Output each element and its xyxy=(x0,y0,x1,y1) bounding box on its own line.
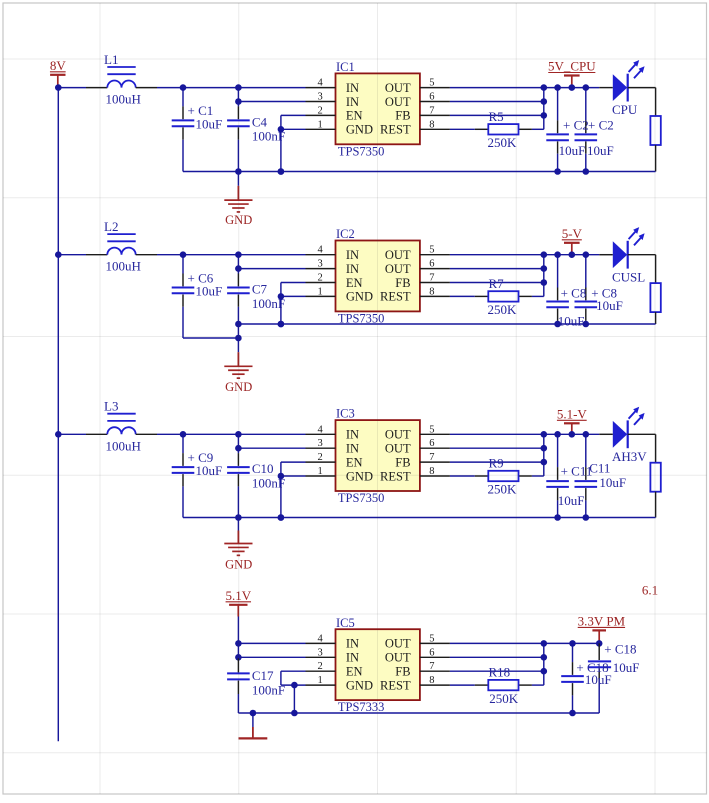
capacitor out A xyxy=(546,88,569,172)
wire: input net xyxy=(58,87,305,89)
node: mid junctions xyxy=(541,654,548,675)
wire: pin8 to R18 xyxy=(450,684,475,686)
wire: pin3 to cap xyxy=(238,268,305,270)
wire: pin6 pin7 mid xyxy=(450,643,544,685)
wire: pin8 to resistor xyxy=(450,295,475,297)
svg-text:OUT: OUT xyxy=(385,95,411,109)
svg-text:1: 1 xyxy=(318,286,323,297)
wire: 3.3V OUT net xyxy=(450,642,599,644)
svg-text:5: 5 xyxy=(429,245,434,256)
svg-text:7: 7 xyxy=(429,661,434,672)
wire: pin8 to resistor xyxy=(450,128,475,130)
R5 labels xyxy=(488,109,518,150)
svg-text:10uF: 10uF xyxy=(599,475,626,490)
wire: ground rail xyxy=(183,171,656,173)
op-amp IC5 (regulator) xyxy=(336,629,420,700)
IC3 part TPS7350 xyxy=(338,491,385,505)
svg-text:6: 6 xyxy=(429,647,434,658)
resistor R18 xyxy=(475,680,544,690)
svg-text:OUT: OUT xyxy=(385,262,411,276)
node: input junctions xyxy=(180,431,242,438)
capacitor C6 xyxy=(172,255,195,338)
node: rail junctions xyxy=(250,710,576,717)
IC2 reference xyxy=(336,227,355,241)
svg-text:5V_CPU: 5V_CPU xyxy=(548,59,596,74)
wire: EN/GND drop xyxy=(281,115,306,171)
capacitor out B xyxy=(575,434,598,517)
node: mid junctions xyxy=(541,265,548,286)
op-amp IC2 (regulator) xyxy=(336,241,420,312)
svg-text:AH3V: AH3V xyxy=(612,449,647,464)
IC3 pins xyxy=(306,434,450,476)
svg-text:5.1-V: 5.1-V xyxy=(557,406,588,421)
inductor L2 xyxy=(86,219,157,255)
wire: OUT net xyxy=(450,433,599,435)
svg-text:8: 8 xyxy=(429,675,434,686)
svg-text:5-V: 5-V xyxy=(562,226,583,241)
svg-text:250K: 250K xyxy=(489,691,519,706)
svg-text:EN: EN xyxy=(346,455,363,469)
svg-text:C17: C17 xyxy=(252,668,274,683)
IC2 pins xyxy=(306,255,450,297)
svg-text:EN: EN xyxy=(346,109,363,123)
IC5 reference xyxy=(336,616,355,630)
node label 6.1 xyxy=(642,583,658,598)
node: EN drop junctions xyxy=(278,293,285,327)
wire: 8V vertical rail xyxy=(57,88,59,742)
svg-text:EN: EN xyxy=(346,665,363,679)
svg-text:100uH: 100uH xyxy=(106,438,141,453)
svg-text:L2: L2 xyxy=(104,219,118,234)
svg-text:CPU: CPU xyxy=(612,102,638,117)
power 5V_CPU xyxy=(548,59,596,88)
svg-text:IC2: IC2 xyxy=(336,227,355,241)
capacitor C7 xyxy=(227,255,250,324)
node: pin3 junction xyxy=(235,265,242,272)
capacitor C18 a xyxy=(561,643,584,713)
capacitor C10 xyxy=(227,434,250,517)
node: rail junctions xyxy=(235,514,589,521)
svg-text:IC5: IC5 xyxy=(336,616,355,630)
wire: pin8 to resistor xyxy=(450,475,475,477)
ground GND xyxy=(224,518,252,572)
svg-text:OUT: OUT xyxy=(385,651,411,665)
wire: OUT net xyxy=(450,254,599,256)
wire: input net xyxy=(58,254,305,256)
svg-text:3: 3 xyxy=(318,647,323,658)
svg-text:7: 7 xyxy=(429,105,434,116)
svg-text:GND: GND xyxy=(346,290,373,304)
IC2 pin numbers xyxy=(318,245,435,298)
load resistor xyxy=(650,434,660,491)
wire: input net xyxy=(58,433,305,435)
svg-text:250K: 250K xyxy=(488,135,518,150)
C17 labels xyxy=(252,668,285,697)
svg-text:100uH: 100uH xyxy=(106,259,141,274)
svg-text:10uF: 10uF xyxy=(196,284,223,299)
svg-text:5: 5 xyxy=(429,633,434,644)
C18 labels xyxy=(576,641,639,687)
IC5 pin numbers xyxy=(318,633,435,686)
svg-text:5: 5 xyxy=(429,424,434,435)
IC3 pin numbers xyxy=(318,424,435,477)
capacitor C17 xyxy=(227,658,250,713)
svg-text:10uF: 10uF xyxy=(596,298,623,313)
C6 labels xyxy=(188,270,223,298)
capacitor out B xyxy=(575,255,598,324)
svg-text:REST: REST xyxy=(380,678,411,692)
op-amp IC3 (regulator) xyxy=(336,420,420,491)
C10 labels xyxy=(252,461,285,490)
svg-text:C4: C4 xyxy=(252,114,268,129)
node: pin3 junction xyxy=(235,98,242,105)
IC1 reference xyxy=(336,60,355,74)
svg-text:FB: FB xyxy=(395,109,410,123)
wire: 5.1V vertical xyxy=(238,617,305,658)
wire: pin6 pin7 xyxy=(450,255,544,297)
node: mid junctions xyxy=(541,98,548,119)
svg-text:+ C2: + C2 xyxy=(563,117,589,132)
svg-text:GND: GND xyxy=(346,123,373,137)
svg-text:6: 6 xyxy=(429,92,434,103)
node: pin3 junction xyxy=(235,445,242,452)
wire: right vertical xyxy=(655,312,657,324)
node: input junctions xyxy=(180,251,242,258)
IC1 pin numbers xyxy=(318,78,435,131)
ground GND xyxy=(224,172,252,228)
node: EN drop junctions xyxy=(278,126,285,175)
capacitor C1 xyxy=(172,88,195,172)
R18 labels xyxy=(489,665,519,706)
svg-text:6: 6 xyxy=(429,259,434,270)
C4 labels xyxy=(252,114,285,143)
wire: EN/GND drop xyxy=(281,283,306,325)
svg-text:C10: C10 xyxy=(252,461,274,476)
wire: ground rail xyxy=(183,324,656,338)
svg-text:FB: FB xyxy=(395,665,410,679)
node: OUT junctions xyxy=(541,251,590,258)
op-amp IC1 (regulator) xyxy=(336,73,420,144)
out cap labels xyxy=(558,286,623,329)
IC1 part TPS7350 xyxy=(338,144,385,158)
wire: OUT net xyxy=(450,87,599,89)
out cap labels xyxy=(559,117,614,158)
svg-text:OUT: OUT xyxy=(385,637,411,651)
LED AH3V xyxy=(599,407,655,464)
svg-text:+ C18: + C18 xyxy=(604,641,636,656)
svg-text:4: 4 xyxy=(318,245,324,256)
svg-text:1: 1 xyxy=(318,675,323,686)
IC1 pins xyxy=(306,88,450,130)
svg-text:+ C11: + C11 xyxy=(561,464,593,479)
load resistor xyxy=(650,88,660,145)
svg-text:8: 8 xyxy=(429,286,434,297)
svg-text:REST: REST xyxy=(380,123,411,137)
LED CPU xyxy=(599,60,655,117)
svg-text:10uF: 10uF xyxy=(613,660,640,675)
svg-text:IN: IN xyxy=(346,95,359,109)
ground bar xyxy=(239,713,268,738)
svg-text:EN: EN xyxy=(346,276,363,290)
C9 labels xyxy=(188,450,223,478)
svg-text:IN: IN xyxy=(346,248,359,262)
svg-text:OUT: OUT xyxy=(385,248,411,262)
wire: right vertical xyxy=(655,492,657,518)
svg-text:1: 1 xyxy=(318,119,323,130)
svg-text:7: 7 xyxy=(429,273,434,284)
L3 value 100uH xyxy=(106,438,141,453)
svg-text:5: 5 xyxy=(429,78,434,89)
svg-text:2: 2 xyxy=(318,273,323,284)
resistor R7 xyxy=(475,291,544,301)
wire: EN/GND drop xyxy=(281,462,306,517)
svg-text:REST: REST xyxy=(380,469,411,483)
capacitor out B xyxy=(575,88,598,172)
inductor L3 xyxy=(86,399,157,435)
svg-text:R9: R9 xyxy=(489,456,504,471)
svg-text:100nF: 100nF xyxy=(252,682,285,697)
svg-text:3: 3 xyxy=(318,438,323,449)
svg-text:10uF: 10uF xyxy=(196,463,223,478)
svg-text:IN: IN xyxy=(346,637,359,651)
svg-text:7: 7 xyxy=(429,452,434,463)
IC3 reference xyxy=(336,407,355,421)
R9 labels xyxy=(488,456,518,497)
svg-text:6: 6 xyxy=(429,438,434,449)
node: input junctions xyxy=(180,84,242,91)
node: rail junctions xyxy=(235,321,589,342)
resistor R9 xyxy=(475,471,544,481)
svg-text:+ C2: + C2 xyxy=(588,117,614,132)
svg-text:+ C8: + C8 xyxy=(561,286,587,301)
svg-text:FB: FB xyxy=(395,276,410,290)
svg-text:10uF: 10uF xyxy=(558,493,585,508)
R7 labels xyxy=(488,276,518,317)
wire: ground rail xyxy=(183,517,656,519)
power 5.1-V xyxy=(557,406,588,434)
node: 5.1V junctions xyxy=(235,640,242,660)
svg-text:IN: IN xyxy=(346,81,359,95)
svg-text:GND: GND xyxy=(346,678,373,692)
svg-text:3: 3 xyxy=(318,92,323,103)
capacitor out A xyxy=(546,434,569,517)
svg-text:REST: REST xyxy=(380,290,411,304)
svg-text:4: 4 xyxy=(318,78,324,89)
wire: pin6 pin7 xyxy=(450,88,544,130)
wire: pin3 to cap xyxy=(238,101,305,103)
wire: pin6 pin7 xyxy=(450,434,544,476)
svg-text:10uF: 10uF xyxy=(585,672,612,687)
power 5.1V xyxy=(225,588,251,617)
svg-text:OUT: OUT xyxy=(385,442,411,456)
svg-text:IC1: IC1 xyxy=(336,60,355,74)
IC2 part TPS7350 xyxy=(338,312,385,326)
svg-text:IC3: IC3 xyxy=(336,407,355,421)
load resistor xyxy=(650,255,660,312)
wire: pin3 to cap xyxy=(238,447,305,449)
svg-text:8V: 8V xyxy=(50,58,67,73)
ground GND xyxy=(224,338,252,394)
svg-text:IN: IN xyxy=(346,651,359,665)
LED CUSL xyxy=(599,227,655,284)
svg-text:10uF: 10uF xyxy=(559,143,586,158)
svg-text:4: 4 xyxy=(318,633,324,644)
capacitor C4 xyxy=(227,88,250,172)
svg-text:3.3V PM: 3.3V PM xyxy=(578,613,626,628)
svg-text:OUT: OUT xyxy=(385,428,411,442)
svg-text:2: 2 xyxy=(318,661,323,672)
power 5-V xyxy=(562,226,583,255)
capacitor out A xyxy=(546,255,569,324)
svg-text:IN: IN xyxy=(346,428,359,442)
svg-text:C7: C7 xyxy=(252,282,268,297)
node: rail junctions xyxy=(235,168,589,175)
svg-text:8: 8 xyxy=(429,119,434,130)
wire: EN to GND pin xyxy=(281,671,306,713)
svg-text:R18: R18 xyxy=(489,665,511,680)
node: mid junctions xyxy=(541,445,548,466)
svg-text:C11: C11 xyxy=(589,461,610,476)
resistor R5 xyxy=(475,124,544,134)
svg-text:4: 4 xyxy=(318,424,324,435)
svg-text:250K: 250K xyxy=(488,302,518,317)
svg-text:CUSL: CUSL xyxy=(612,269,645,284)
svg-text:R5: R5 xyxy=(489,109,504,124)
node: OUT junctions xyxy=(541,431,590,438)
svg-text:2: 2 xyxy=(318,105,323,116)
node: 8V rail junctions xyxy=(55,84,62,437)
node: OUT junctions xyxy=(541,84,590,91)
power 3.3V PM xyxy=(578,613,626,643)
svg-text:3: 3 xyxy=(318,259,323,270)
out cap labels xyxy=(558,461,626,508)
node: EN drop junctions xyxy=(278,473,285,521)
svg-text:10uF: 10uF xyxy=(587,143,614,158)
svg-text:6.1: 6.1 xyxy=(642,583,658,598)
IC5 pins xyxy=(306,643,450,685)
L1 value 100uH xyxy=(106,92,141,107)
svg-text:10uF: 10uF xyxy=(558,314,585,329)
node: OUT junctions xyxy=(541,640,603,647)
L2 value 100uH xyxy=(106,259,141,274)
svg-text:OUT: OUT xyxy=(385,81,411,95)
IC5 part TPS7333 xyxy=(338,700,385,714)
C1 labels xyxy=(188,103,223,131)
svg-text:L3: L3 xyxy=(104,399,118,414)
svg-text:250K: 250K xyxy=(488,482,518,497)
inductor L1 xyxy=(86,52,157,88)
wire: right vertical xyxy=(655,145,657,172)
svg-text:GND: GND xyxy=(346,469,373,483)
wire: block4 ground rail xyxy=(238,712,599,714)
svg-text:IN: IN xyxy=(346,262,359,276)
capacitor C9 xyxy=(172,434,195,517)
svg-text:100uH: 100uH xyxy=(106,92,141,107)
node: pin1 junctions xyxy=(291,682,298,717)
svg-text:FB: FB xyxy=(395,455,410,469)
svg-text:10uF: 10uF xyxy=(196,116,223,131)
svg-text:2: 2 xyxy=(318,452,323,463)
C7 labels xyxy=(252,282,285,311)
svg-text:R7: R7 xyxy=(489,276,505,291)
capacitor C18 b xyxy=(588,643,611,713)
svg-text:IN: IN xyxy=(346,442,359,456)
power 8V xyxy=(50,58,67,88)
